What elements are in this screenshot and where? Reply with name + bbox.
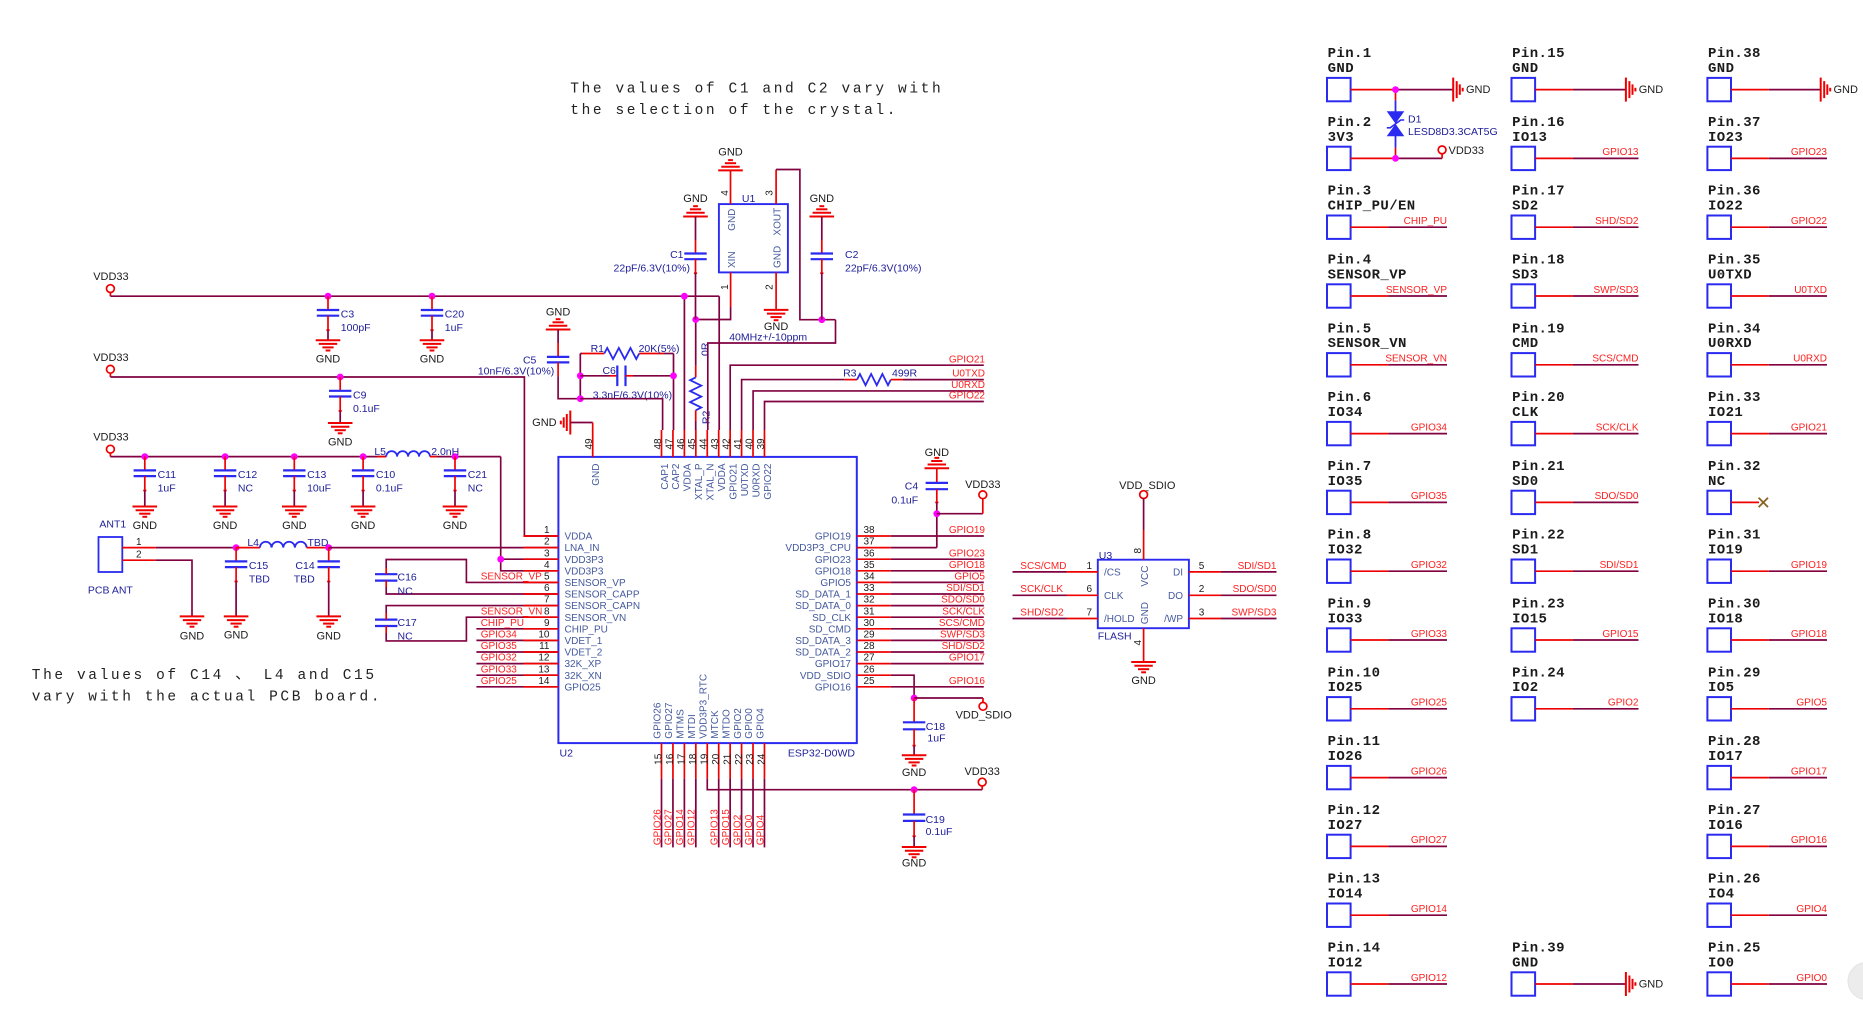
svg-text:Pin.14: Pin.14 [1328, 941, 1381, 957]
svg-text:U0TXD: U0TXD [740, 464, 751, 497]
svg-text:10nF/6.3V(10%): 10nF/6.3V(10%) [478, 366, 554, 378]
header Pin.21 SD0 [1512, 459, 1639, 514]
svg-text:23: 23 [745, 753, 756, 765]
svg-text:VDDA: VDDA [717, 463, 728, 491]
net label GPIO34 wire to U2 pin 10 [476, 630, 558, 641]
svg-text:Pin.19: Pin.19 [1512, 321, 1565, 337]
svg-text:45: 45 [687, 438, 698, 450]
U3 pin 5 DI wire SDI/SD1 [1189, 561, 1277, 572]
svg-text:/WP: /WP [1164, 614, 1183, 625]
svg-text:CLK: CLK [1104, 591, 1124, 602]
svg-text:L4: L4 [247, 537, 259, 549]
svg-text:3V3: 3V3 [1328, 130, 1354, 146]
junction D1 bottom [1392, 155, 1399, 162]
capacitor C3 [316, 296, 371, 365]
header Pin.20 CLK [1512, 390, 1639, 445]
svg-text:GPIO15: GPIO15 [721, 809, 732, 846]
wire U0RXD row [753, 380, 985, 430]
U2 pin 10 VDET_1 [523, 630, 602, 648]
wire and net label GPIO16 from U2 pin 25 [891, 676, 986, 687]
svg-text:47: 47 [664, 438, 675, 450]
U2 pin 17 MTMS (bottom) [676, 709, 688, 779]
note about C1 and C2 [570, 82, 943, 120]
svg-text:SENSOR_VN: SENSOR_VN [1328, 336, 1407, 352]
svg-text:SENSOR_VP: SENSOR_VP [1386, 285, 1447, 296]
U2 pin 28 SD_DATA_2 [795, 641, 891, 659]
header Pin.18 SD3 [1512, 253, 1639, 308]
net label GPIO33 wire to U2 pin 13 [476, 664, 558, 675]
svg-text:SD3: SD3 [1512, 267, 1538, 283]
svg-text:2.0nH: 2.0nH [431, 446, 459, 458]
svg-text:GPIO22: GPIO22 [949, 391, 986, 402]
svg-text:GPIO21: GPIO21 [1791, 422, 1828, 433]
svg-text:SCK/CLK: SCK/CLK [1020, 584, 1063, 595]
wire and net label SDI/SD1 from U2 pin 33 [891, 583, 986, 594]
U2 pin 18 MTDI (bottom) [687, 714, 699, 778]
capacitor C19 [902, 790, 953, 870]
header Pin.24 IO2 [1512, 665, 1639, 720]
svg-text:D1: D1 [1408, 113, 1422, 125]
ground left of U2 pin49 [532, 411, 593, 435]
svg-text:CHIP_PU: CHIP_PU [1404, 216, 1447, 227]
svg-text:Pin.20: Pin.20 [1512, 390, 1565, 406]
net label GPIO25 wire to U2 pin 14 [476, 676, 558, 687]
svg-text:GND: GND [351, 520, 376, 532]
U2 pin 15 GPIO26 (bottom) [653, 702, 665, 778]
svg-text:GND: GND [1466, 84, 1491, 96]
svg-text:MTCK: MTCK [710, 710, 721, 739]
svg-text:GPIO18: GPIO18 [815, 566, 852, 577]
svg-text:32K_XP: 32K_XP [565, 659, 602, 670]
svg-text:GPIO14: GPIO14 [675, 809, 686, 846]
svg-text:IO17: IO17 [1708, 749, 1743, 765]
svg-text:VDD3P3_CPU: VDD3P3_CPU [785, 543, 851, 554]
wire R1-C6 left branch [579, 354, 581, 399]
svg-text:22pF/6.3V(10%): 22pF/6.3V(10%) [614, 263, 690, 275]
net label GPIO13 wire below U2 pin 20 [710, 779, 721, 848]
svg-text:CAP1: CAP1 [660, 463, 671, 490]
diode D1 TVS [1387, 90, 1498, 159]
svg-text:SWP/SD3: SWP/SD3 [1593, 285, 1638, 296]
inductor L4 [236, 537, 329, 549]
svg-text:GPIO18: GPIO18 [1791, 629, 1828, 640]
svg-text:NC: NC [1708, 474, 1726, 490]
svg-text:NC: NC [468, 483, 484, 495]
svg-text:DO: DO [1168, 591, 1183, 602]
svg-text:Pin.15: Pin.15 [1512, 46, 1565, 62]
junction C6 right [670, 372, 677, 379]
svg-text:6: 6 [544, 583, 550, 594]
wire rail1 drop to U2 pin46 [683, 296, 685, 430]
capacitor C13 [282, 457, 331, 532]
svg-text:13: 13 [538, 664, 550, 675]
svg-text:IO26: IO26 [1328, 749, 1363, 765]
svg-text:LNA_IN: LNA_IN [565, 543, 600, 554]
svg-text:SHD/SD2: SHD/SD2 [942, 641, 986, 652]
svg-text:PCB ANT: PCB ANT [88, 585, 134, 597]
svg-text:VCC: VCC [1140, 566, 1151, 587]
wire U2 pin37 VDD3P3_CPU to C4 [891, 514, 937, 548]
svg-text:CAP2: CAP2 [671, 463, 682, 490]
svg-text:/HOLD: /HOLD [1104, 614, 1135, 625]
svg-text:C19: C19 [926, 814, 945, 826]
svg-text:SENSOR_VP: SENSOR_VP [481, 571, 542, 582]
svg-text:Pin.23: Pin.23 [1512, 597, 1565, 613]
svg-text:VDD3P3: VDD3P3 [565, 566, 604, 577]
svg-text:36: 36 [864, 548, 876, 559]
header Pin.22 SD1 [1512, 528, 1639, 583]
U2 pin 37 VDD3P3_CPU [785, 537, 890, 555]
svg-text:IO5: IO5 [1708, 680, 1734, 696]
svg-text:Pin.18: Pin.18 [1512, 253, 1565, 269]
svg-text:GPIO0: GPIO0 [1796, 973, 1827, 984]
svg-text:VDD33: VDD33 [965, 479, 1000, 491]
U2 pin 42 GPIO21 (top) [722, 430, 740, 500]
wire GPIO22 row [765, 391, 986, 430]
svg-text:GPIO21: GPIO21 [949, 354, 986, 365]
svg-text:C3: C3 [341, 309, 355, 321]
svg-text:GPIO17: GPIO17 [1791, 766, 1828, 777]
svg-text:C1: C1 [670, 249, 684, 261]
wire ANT1 pin1 to L4 [156, 547, 236, 549]
svg-text:21: 21 [722, 753, 733, 765]
header Pin.26 IO4 [1707, 872, 1827, 927]
svg-text:IO25: IO25 [1328, 680, 1363, 696]
svg-text:GPIO0: GPIO0 [744, 814, 755, 845]
svg-text:GND: GND [902, 767, 927, 779]
U1 pin 3 XOUT stub [764, 170, 776, 205]
header Pin.36 IO22 [1707, 184, 1827, 239]
svg-text:GPIO23: GPIO23 [949, 548, 986, 559]
svg-text:SD1: SD1 [1512, 543, 1538, 559]
wire and net label GPIO23 from U2 pin 36 [891, 548, 986, 559]
svg-text:C16: C16 [398, 572, 417, 584]
capacitor C5 with ground above [478, 307, 580, 399]
junction L4 right C14 [325, 544, 332, 551]
header Pin.31 IO19 [1707, 528, 1827, 583]
U1 pin 4 to ground [718, 147, 743, 205]
U2 pin 31 SD_CLK [812, 606, 891, 624]
header Pin.4 SENSOR_VP [1327, 253, 1447, 308]
svg-text:VDET_1: VDET_1 [565, 636, 603, 647]
svg-text:2: 2 [1199, 584, 1205, 595]
svg-text:SCS/CMD: SCS/CMD [939, 618, 985, 629]
junction D1 top [1392, 86, 1399, 93]
svg-text:46: 46 [676, 438, 687, 450]
svg-text:Pin.27: Pin.27 [1708, 803, 1761, 819]
svg-text:40: 40 [744, 438, 755, 450]
svg-text:C21: C21 [468, 469, 487, 481]
svg-text:0.1uF: 0.1uF [353, 403, 380, 415]
svg-text:Pin.5: Pin.5 [1328, 321, 1372, 337]
svg-text:499R: 499R [892, 367, 918, 379]
svg-text:VDD33: VDD33 [964, 766, 999, 778]
svg-text:GND: GND [1512, 61, 1538, 77]
svg-text:GPIO2: GPIO2 [1608, 698, 1639, 709]
svg-text:GND: GND [282, 520, 307, 532]
svg-text:GPIO2: GPIO2 [733, 708, 744, 739]
svg-text:25: 25 [864, 676, 876, 687]
svg-text:GPIO33: GPIO33 [481, 664, 518, 675]
svg-text:Pin.24: Pin.24 [1512, 665, 1565, 681]
svg-text:Pin.21: Pin.21 [1512, 459, 1565, 475]
header Pin.38 GND [1707, 46, 1858, 102]
capacitor C2 with ground above [810, 193, 922, 320]
svg-text:LESD8D3.3CAT5G: LESD8D3.3CAT5G [1408, 126, 1498, 138]
svg-text:U0RXD: U0RXD [951, 380, 985, 391]
svg-text:IO15: IO15 [1512, 611, 1547, 627]
svg-text:GPIO26: GPIO26 [653, 702, 664, 739]
svg-text:GND: GND [224, 630, 249, 642]
header Pin.32 NC [1707, 459, 1768, 514]
svg-text:IO18: IO18 [1708, 611, 1743, 627]
svg-text:CLK: CLK [1512, 405, 1539, 421]
svg-text:ESP32-D0WD: ESP32-D0WD [788, 748, 856, 760]
svg-text:FLASH: FLASH [1098, 631, 1132, 643]
svg-text:Pin.36: Pin.36 [1708, 184, 1761, 200]
svg-text:22pF/6.3V(10%): 22pF/6.3V(10%) [845, 263, 921, 275]
svg-text:SDI/SD1: SDI/SD1 [1238, 561, 1277, 572]
svg-text:C4: C4 [905, 481, 919, 493]
capacitor C6 [580, 365, 673, 401]
pin 1 of ANT1 [122, 537, 156, 548]
capacitor C9 [328, 377, 380, 448]
svg-text:7: 7 [1086, 607, 1092, 618]
svg-text:4: 4 [544, 560, 550, 571]
net label GPIO32 wire to U2 pin 12 [476, 653, 558, 664]
net label SENSOR_VN [481, 606, 543, 617]
svg-text:R2: R2 [701, 411, 713, 425]
header Pin.35 U0TXD [1707, 253, 1827, 308]
junction rail3 C13 [291, 453, 298, 460]
svg-text:GPIO35: GPIO35 [1411, 491, 1448, 502]
svg-text:VDET_2: VDET_2 [565, 648, 603, 659]
svg-text:SENSOR_VN: SENSOR_VN [1385, 354, 1447, 365]
svg-text:Pin.22: Pin.22 [1512, 528, 1565, 544]
svg-text:C14: C14 [295, 560, 314, 572]
svg-text:Pin.1: Pin.1 [1328, 46, 1372, 62]
svg-text:Pin.29: Pin.29 [1708, 665, 1761, 681]
junction VDD_SDIO C18 [911, 695, 918, 702]
svg-text:IO34: IO34 [1328, 405, 1363, 421]
U2 pin 39 GPIO22 (top) [756, 430, 774, 500]
svg-text:43: 43 [710, 438, 721, 450]
svg-text:0.1uF: 0.1uF [891, 495, 918, 507]
svg-text:35: 35 [864, 560, 876, 571]
svg-text:GND: GND [591, 464, 602, 486]
svg-text:0R: 0R [700, 342, 712, 356]
junction C6 left [577, 372, 584, 379]
svg-text:GPIO34: GPIO34 [1411, 422, 1448, 433]
svg-text:SENSOR_VP: SENSOR_VP [565, 578, 626, 589]
svg-text:49: 49 [584, 438, 595, 450]
svg-text:2: 2 [764, 284, 775, 290]
svg-text:TBD: TBD [294, 574, 315, 586]
U2 pin 6 SENSOR_CAPP [523, 583, 639, 601]
svg-text:Pin.6: Pin.6 [1328, 390, 1372, 406]
header Pin.13 IO14 [1327, 872, 1447, 927]
svg-text:L5: L5 [374, 446, 386, 458]
header Pin.15 GND [1512, 46, 1664, 102]
svg-text:GND: GND [316, 631, 341, 643]
junction 3.3nF row left [577, 395, 584, 402]
U2 pin 43 VDDA (top) [710, 430, 728, 491]
U2 pin 3 VDD3P3 [523, 548, 603, 566]
svg-text:vary with the actual PCB board: vary with the actual PCB board. [32, 690, 382, 706]
svg-text:Pin.2: Pin.2 [1328, 115, 1372, 131]
svg-text:GND: GND [1834, 84, 1859, 96]
U2 pin 11 VDET_2 [523, 641, 602, 659]
svg-text:GND: GND [683, 193, 708, 205]
svg-text:GPIO12: GPIO12 [1411, 973, 1448, 984]
junction XIN C1 R2 [692, 316, 699, 323]
svg-text:GPIO35: GPIO35 [481, 641, 518, 652]
U2 pin 9 CHIP_PU [523, 618, 607, 636]
svg-text:GND: GND [902, 858, 927, 870]
header Pin.27 IO16 [1707, 803, 1827, 858]
svg-text:SDO/SD0: SDO/SD0 [941, 595, 985, 606]
svg-text:GPIO17: GPIO17 [815, 659, 852, 670]
U2 pin 22 GPIO2 (bottom) [733, 708, 745, 779]
svg-text:IO13: IO13 [1512, 130, 1547, 146]
svg-text:Pin.33: Pin.33 [1708, 390, 1761, 406]
svg-text:Pin.31: Pin.31 [1708, 528, 1761, 544]
svg-text:19: 19 [699, 753, 710, 765]
svg-text:44: 44 [699, 438, 710, 450]
svg-text:VDD3P3_RTC: VDD3P3_RTC [698, 674, 709, 739]
U2 pin 5 SENSOR_VP [523, 572, 626, 590]
capacitor C12 [213, 457, 258, 532]
svg-text:C12: C12 [238, 469, 257, 481]
svg-text:C18: C18 [926, 721, 945, 733]
wire and net label SWP/SD3 from U2 pin 29 [891, 630, 986, 641]
svg-text:Pin.35: Pin.35 [1708, 253, 1761, 269]
svg-text:CHIP_PU/EN: CHIP_PU/EN [1328, 199, 1416, 215]
U2 pin 29 SD_DATA_3 [795, 630, 891, 648]
U3 pin 4 to ground [1131, 628, 1156, 687]
svg-text:GPIO27: GPIO27 [1411, 835, 1448, 846]
power terminal VDD33 rail2 [93, 352, 128, 377]
svg-text:GND: GND [1512, 955, 1538, 971]
svg-text:IO23: IO23 [1708, 130, 1743, 146]
capacitor C18 [902, 698, 946, 779]
svg-text:GPIO34: GPIO34 [481, 630, 518, 641]
svg-text:Pin.39: Pin.39 [1512, 941, 1565, 957]
svg-text:U0TXD: U0TXD [1794, 285, 1827, 296]
svg-text:R3: R3 [843, 367, 857, 379]
svg-text:Pin.17: Pin.17 [1512, 184, 1565, 200]
svg-text:VDD3P3: VDD3P3 [565, 555, 604, 566]
wire VDD33 rail3 [110, 456, 500, 458]
capacitor C14 [294, 548, 341, 643]
svg-text:GND: GND [180, 631, 205, 643]
svg-text:GND: GND [420, 354, 445, 366]
svg-text:SD_CLK: SD_CLK [812, 613, 851, 624]
svg-text:GPIO16: GPIO16 [815, 682, 852, 693]
svg-text:Pin.7: Pin.7 [1328, 459, 1372, 475]
header Pin.33 IO21 [1707, 390, 1827, 445]
svg-text:SD_DATA_3: SD_DATA_3 [795, 636, 851, 647]
junction rail3 C11 [141, 453, 148, 460]
U2 pin 20 MTCK (bottom) [710, 710, 722, 779]
net label GPIO27 wire below U2 pin 16 [664, 779, 675, 848]
junction rail2 C9 [337, 374, 344, 381]
power terminal VDD_SDIO above U3 [1119, 480, 1176, 560]
svg-text:GND: GND [773, 246, 784, 268]
svg-text:the selection of the crystal.: the selection of the crystal. [570, 103, 898, 119]
svg-text:GPIO27: GPIO27 [664, 809, 675, 846]
svg-text:15: 15 [654, 753, 665, 765]
svg-text:40MHz+/-10ppm: 40MHz+/-10ppm [729, 332, 807, 344]
resistor R3 [843, 367, 985, 385]
svg-text:11: 11 [539, 641, 550, 652]
svg-text:18: 18 [688, 753, 699, 765]
power terminal VDD33 near C19 [964, 766, 999, 790]
resistor R2 0R [690, 320, 712, 431]
svg-text:32: 32 [864, 595, 876, 606]
svg-text:27: 27 [864, 653, 876, 664]
svg-text:5: 5 [544, 572, 550, 583]
wire U2 pin19 to bottom rail [707, 779, 982, 790]
svg-text:IO21: IO21 [1708, 405, 1743, 421]
wire L4 to U2 pin2 LNA_IN [329, 547, 559, 549]
svg-text:SENSOR_VP: SENSOR_VP [1328, 267, 1407, 283]
svg-text:The values of C1 and C2 vary w: The values of C1 and C2 vary with [570, 82, 943, 98]
wire and net label GPIO18 from U2 pin 35 [891, 560, 986, 571]
U2 pin 12 32K_XP [523, 653, 601, 671]
svg-text:10: 10 [538, 630, 550, 641]
svg-text:ANT1: ANT1 [99, 518, 126, 530]
svg-text:30: 30 [864, 618, 876, 629]
svg-text:26: 26 [864, 664, 876, 675]
svg-text:1uF: 1uF [445, 322, 463, 334]
svg-text:32K_XN: 32K_XN [565, 671, 602, 682]
svg-text:34: 34 [864, 572, 876, 583]
svg-text:SHD/SD2: SHD/SD2 [1020, 607, 1064, 618]
ic U2 ESP32-D0WD outline [558, 457, 856, 760]
header Pin.7 IO35 [1327, 459, 1447, 514]
U3 pin 1 /CS wire SCS/CMD [1013, 561, 1098, 572]
svg-text:Pin.3: Pin.3 [1328, 184, 1372, 200]
svg-text:GND: GND [1639, 979, 1664, 991]
U3 pin 2 DO wire SDO/SD0 [1189, 584, 1277, 595]
svg-text:MTDO: MTDO [721, 709, 732, 739]
svg-text:SENSOR_CAPN: SENSOR_CAPN [565, 601, 641, 612]
U2 pin 25 GPIO16 [815, 676, 891, 694]
junction rail1 C3 [325, 293, 332, 300]
U2 pin 19 VDD3P3_RTC (bottom) [698, 674, 710, 779]
U2 pin 44 XTAL_N (top) [699, 430, 717, 501]
U2 pin 27 GPIO17 [815, 653, 891, 671]
net label GPIO0 wire below U2 pin 23 [744, 779, 755, 848]
svg-text:GPIO19: GPIO19 [949, 525, 986, 536]
ground ANT pin2 [180, 616, 205, 642]
svg-text:VDD33: VDD33 [93, 352, 128, 364]
U2 pin 2 LNA_IN [523, 537, 599, 555]
svg-text:GPIO32: GPIO32 [1411, 560, 1448, 571]
capacitor C16 [375, 560, 558, 598]
svg-text:SDI/SD1: SDI/SD1 [946, 583, 985, 594]
svg-text:SCK/CLK: SCK/CLK [1596, 422, 1639, 433]
svg-text:NC: NC [398, 631, 414, 643]
svg-text:Pin.10: Pin.10 [1328, 665, 1381, 681]
svg-text:NC: NC [238, 483, 254, 495]
svg-text:GND: GND [718, 147, 743, 159]
svg-text:GND: GND [443, 520, 468, 532]
svg-text:VDD_SDIO: VDD_SDIO [956, 709, 1013, 721]
svg-text:6: 6 [1086, 584, 1092, 595]
svg-text:GPIO4: GPIO4 [756, 708, 767, 739]
